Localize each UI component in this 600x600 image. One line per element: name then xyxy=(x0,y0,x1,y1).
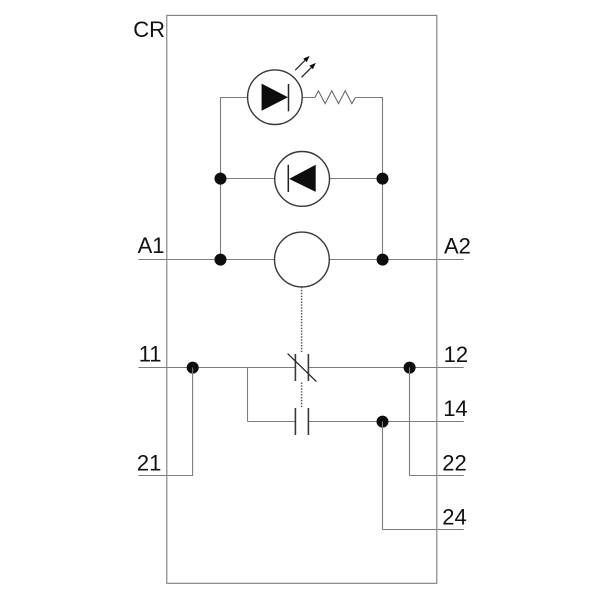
LED light arrow 1 head xyxy=(303,56,309,62)
coil actuation dotted link xyxy=(301,287,303,352)
diode triangle (points left) xyxy=(289,165,316,192)
svg-text:A1: A1 xyxy=(138,233,165,258)
wire branch 11 to NO contact xyxy=(247,368,249,422)
svg-text:CR: CR xyxy=(133,17,165,42)
wire terminal 12 row xyxy=(308,367,463,369)
wire LED row left xyxy=(221,97,249,99)
junction dot A1 row xyxy=(215,254,227,266)
NC contact 11-12 right bar xyxy=(307,354,309,381)
NC contact 11-12 left bar xyxy=(294,354,296,381)
coil K1 circle xyxy=(275,232,330,287)
svg-text:12: 12 xyxy=(444,342,468,367)
wire terminal 24 row xyxy=(383,529,464,531)
LED light arrow 2 shaft xyxy=(302,67,312,77)
svg-text:11: 11 xyxy=(139,341,162,366)
wire terminal 21 row xyxy=(139,475,193,477)
wire terminal 14 row xyxy=(308,421,463,423)
junction dot 14 row xyxy=(377,416,389,428)
wire diode row right xyxy=(329,178,382,180)
relay CR outline box xyxy=(167,15,437,583)
LED light arrow 2 head xyxy=(309,63,315,69)
wire A2 terminal row xyxy=(329,259,463,261)
suppression diode circle xyxy=(275,152,330,207)
LED light arrow 1 shaft xyxy=(295,60,305,70)
resistor R1 zigzag xyxy=(315,91,355,104)
diode cathode bar xyxy=(287,165,289,192)
wire LED row right to resistor xyxy=(302,97,315,99)
wire NO contact left lead xyxy=(248,421,296,423)
LED triangle (anode) xyxy=(262,84,288,111)
NC contact slash xyxy=(288,354,317,382)
NO contact 11-14 left bar xyxy=(294,408,296,435)
wire right vertical bus (LED row to A2 row) xyxy=(382,97,384,260)
wire resistor to right vertical xyxy=(355,97,383,99)
wire terminal 11 row xyxy=(139,367,296,369)
wire left vertical bus (LED row to A1 row) xyxy=(220,97,222,260)
wire drop 14 to 24 xyxy=(382,422,384,530)
svg-text:21: 21 xyxy=(137,451,161,476)
junction dot 12 row xyxy=(404,362,416,374)
svg-text:14: 14 xyxy=(443,396,467,421)
wire terminal 22 row xyxy=(410,475,464,477)
svg-text:24: 24 xyxy=(442,504,466,529)
wire A1 terminal row xyxy=(139,259,275,261)
wire diode row left xyxy=(221,178,276,180)
wire drop 12 to 22 xyxy=(409,368,411,477)
svg-text:22: 22 xyxy=(442,451,466,476)
NO contact 11-14 right bar xyxy=(307,408,309,435)
junction dot 11 row xyxy=(187,362,199,374)
svg-text:A2: A2 xyxy=(444,233,471,258)
LED indicator circle xyxy=(248,70,303,125)
junction dot diode row right xyxy=(377,173,389,185)
junction dot A2 row xyxy=(377,254,389,266)
LED cathode bar xyxy=(288,84,290,111)
dotted link between contacts xyxy=(301,383,303,409)
junction dot diode row left xyxy=(215,173,227,185)
wire drop 11 to 21 xyxy=(192,368,194,477)
